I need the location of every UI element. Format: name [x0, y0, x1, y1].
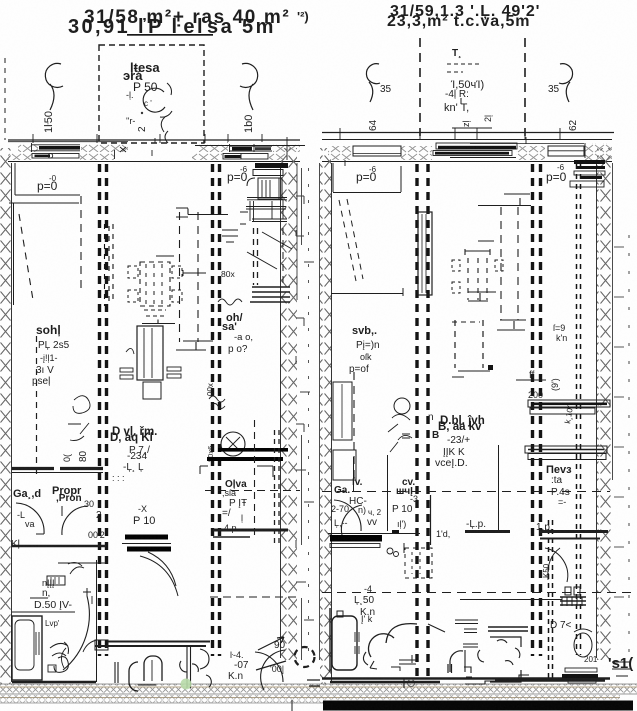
storage label block [222, 312, 253, 355]
terrace dashed side right [524, 38, 526, 136]
row2 mid tick [114, 150, 116, 159]
wall inner face [8, 161, 300, 163]
extra thin dashes beside pair A [104, 224, 106, 306]
terrace2 chair arcs [478, 640, 520, 665]
RIGHT UNIT INTERIOR [296, 160, 637, 688]
terrace dashed outline [99, 45, 204, 143]
kitchen bottom thick wall [213, 529, 288, 532]
terrace2 marks [428, 624, 445, 632]
bench bars [565, 668, 597, 672]
wardrobe2 tall dashed [478, 205, 531, 207]
living label2 block [435, 415, 485, 469]
left unit column pair B [211, 164, 214, 656]
right unit heavy edge line [322, 677, 610, 680]
closet box 1 [333, 382, 352, 440]
BOTTOM GROUND BANDS [0, 679, 637, 711]
kitchen label block [222, 479, 247, 533]
hallway door arc 2 [62, 506, 88, 535]
bath door arc [63, 596, 89, 670]
wall inner face [322, 161, 612, 163]
chairs dashed left [128, 266, 138, 302]
door leaf diagonals [247, 232, 292, 269]
p=0 label left [356, 165, 377, 184]
living terrace edge [108, 641, 210, 643]
shower door arcs [369, 634, 394, 657]
lower cabinet block [246, 207, 287, 222]
left swirl symbol [366, 64, 380, 102]
left unit right wall [281, 148, 297, 660]
chairs2 dashed [452, 260, 460, 293]
hall labels2 [331, 464, 572, 533]
small level text right [553, 323, 567, 343]
window W1 row2 dark bar [35, 155, 51, 157]
hallway door leaf marks [36, 506, 62, 534]
TOP WALL LEFT UNIT [8, 137, 305, 162]
terrace2 chair 1 [448, 651, 463, 673]
closet line top-left room [15, 163, 80, 195]
bedroom label block [32, 323, 70, 387]
hall jamb lines [354, 455, 388, 531]
window W1 frame [31, 143, 80, 152]
right unit column pair C [415, 164, 418, 680]
bathtub hatch marks [36, 632, 39, 655]
wc small table [391, 655, 416, 671]
terrace label block [444, 48, 484, 114]
dashed hall line [205, 490, 300, 492]
left unit column pair A [98, 164, 101, 656]
left unit left wall [0, 148, 11, 684]
bedroom dashed wardrobe line [36, 336, 38, 478]
green marker dot [181, 679, 192, 690]
bed dashed [454, 320, 456, 368]
wardrobe slim hatched [418, 212, 432, 295]
hallway bottom wall [12, 545, 106, 547]
right bath bottom thick line [495, 679, 605, 681]
hatch row1 right segment [199, 144, 300, 152]
door arcs near bath2 [545, 548, 568, 582]
window bar assembly 1 [528, 400, 610, 407]
ground hatch band 1 [0, 684, 637, 694]
window W1 row2 frame [32, 154, 79, 159]
top-right cabinet bars [255, 163, 288, 168]
hatch row2 far-left segment [8, 153, 32, 160]
window bar assembly 2 [525, 446, 607, 453]
outer face line left [8, 141, 128, 143]
hatch row2 mid segment [80, 153, 114, 160]
arrow marks [256, 637, 286, 670]
bathroom2 bottom thick line [330, 681, 440, 683]
shelf stack [250, 287, 290, 302]
bathtub [12, 616, 42, 680]
TOP WALL RIGHT UNIT [322, 137, 612, 166]
dashed hall line2 [322, 491, 610, 493]
section circle mark [295, 647, 315, 667]
right swirl symbol [559, 64, 573, 102]
dining table2 dashed [478, 240, 494, 242]
kitchen dashed vertical [254, 420, 256, 540]
figure scribble [394, 398, 410, 414]
small line bottom left area [291, 700, 293, 711]
window W4 frame [548, 146, 584, 156]
hallway door arc 1 [16, 503, 44, 534]
tub small label [45, 619, 60, 628]
right margin marks [612, 662, 630, 676]
toilet [48, 665, 56, 672]
window W2 opening white [228, 142, 273, 152]
RIGHT TERRACE [322, 38, 614, 139]
right unit left wall [320, 148, 331, 684]
entry black bar [330, 535, 382, 542]
left swirl symbol [45, 63, 63, 110]
right unit right wall [597, 148, 612, 660]
thin lower line2 [460, 599, 562, 601]
wc2 [574, 633, 592, 657]
shaft dashes [254, 228, 258, 285]
window W2 frame [229, 144, 272, 152]
door swing dashed diagonals [19, 214, 33, 300]
outer face line right [195, 145, 305, 147]
bedroom2 door dashed diagonals [339, 200, 356, 281]
upper cabinet box [258, 178, 282, 199]
bathtub2 [329, 608, 331, 672]
kitchen thick counter bars [218, 448, 288, 452]
bath top partial wall [58, 562, 106, 564]
bedroom2 label block [349, 325, 380, 375]
INTERIOR DASHED PARTITION COLUMNS [100, 164, 630, 680]
lower right labels [228, 640, 286, 682]
hall door arcs2 [334, 500, 361, 531]
dashed lower line [210, 596, 300, 598]
top-right cabinet bars [574, 160, 605, 164]
dark sill bars [488, 627, 528, 631]
plant scribble [68, 396, 90, 441]
living-bath jamb line [498, 445, 500, 531]
band right corner line [286, 137, 288, 160]
hatch row2 right segment [192, 153, 287, 160]
wardrobe tall dashed [176, 208, 228, 217]
hall door arc to kitchen [140, 552, 178, 596]
dining table dashed [156, 255, 174, 257]
shower circle scribble [221, 432, 245, 456]
terrace dashed side left [419, 38, 421, 136]
small equal marks [222, 230, 238, 242]
LEFT UNIT INTERIOR [9, 163, 320, 691]
right solid black bar [323, 701, 633, 711]
centre opening marks [120, 138, 155, 156]
right swirl symbol [240, 63, 258, 110]
hatch blocks [328, 146, 352, 160]
sliding door assembly [436, 143, 517, 149]
lower right door arcs [255, 652, 283, 682]
bath right wall line [96, 560, 98, 682]
right margin dashed line [628, 235, 630, 660]
small dashed table [405, 548, 432, 578]
p=0 label bedroom1 [37, 174, 58, 193]
door label2 [354, 584, 375, 618]
right unit column pair D [531, 164, 534, 656]
80x text + wave [221, 269, 235, 279]
sink scribble [50, 642, 69, 656]
dim text 1d [436, 529, 450, 539]
mid thick walls right [465, 530, 510, 533]
sill ticks [33, 134, 262, 143]
sill line left unit [8, 139, 300, 141]
window W1 dark bar [39, 146, 80, 150]
row2 handle mark [48, 154, 52, 158]
outer face line [322, 139, 612, 141]
LEFT TERRACE [5, 45, 300, 143]
TITLES [68, 3, 540, 38]
terrace2 steps [465, 675, 529, 684]
chairs dashed right [172, 266, 182, 302]
gap dashed property line [308, 168, 310, 655]
terrace chair marks [115, 662, 118, 683]
kitchen counter black bars [125, 535, 168, 540]
ticks [345, 137, 585, 166]
sill ticks [340, 128, 560, 139]
sill upper short line [452, 127, 492, 129]
right unit thin pair near right wall [576, 164, 578, 655]
bath labels [34, 578, 72, 611]
left title underline [127, 34, 213, 36]
bedroom2 closet line [333, 163, 401, 193]
right unit pair near bath [548, 520, 550, 680]
sepia scan lines [0, 686, 637, 688]
window W2 dark bars [232, 147, 252, 150]
paper noise overlay [0, 0, 1, 1]
closet box 2 [333, 450, 356, 480]
door frame corner marks [200, 466, 273, 477]
level mark ff (9) 200 [528, 370, 543, 400]
gap tick marks [296, 196, 314, 620]
bath door mark [30, 596, 92, 604]
VERTICAL WALLS [0, 148, 613, 684]
radiator glyphs [565, 587, 571, 595]
living room label block [110, 426, 157, 483]
terrace2 table bracket [490, 637, 521, 682]
p=0 label right [546, 163, 567, 184]
bathroom bottom thick line [12, 681, 96, 684]
window W2 row2 frame [223, 154, 268, 160]
kitchen top-right p=0 label [227, 165, 248, 184]
circle on sill [403, 678, 405, 688]
left margin dashed line [4, 58, 6, 140]
sofa solid [142, 320, 175, 324]
terrace level circle [143, 88, 165, 112]
ground hatch band 2 [0, 695, 620, 703]
sill line right unit [322, 132, 614, 134]
hall radiator [47, 576, 65, 585]
sofa side bars [120, 368, 133, 372]
terrace label block [123, 60, 160, 132]
bathroom top line [12, 611, 75, 613]
bedroom bottom thick wall [12, 467, 103, 470]
kitchen dashed pair right [274, 430, 276, 545]
hallway labels [11, 485, 155, 550]
window W3 frame [353, 146, 401, 156]
hatch row1 left segment [81, 144, 128, 152]
dashed lower line2 [322, 592, 637, 594]
bedroom2 lower line [331, 288, 403, 296]
